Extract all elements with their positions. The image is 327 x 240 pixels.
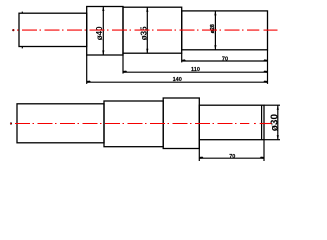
svg-text:ø30: ø30 [270, 114, 281, 132]
chamfer line at shaft end [261, 106, 263, 140]
centerline (top shaft) [12, 29, 277, 31]
extension line x86.7 [86, 55, 88, 84]
svg-text:ø40: ø40 [95, 26, 104, 40]
svg-text:70: 70 [222, 57, 228, 63]
section B4 outline [199, 105, 264, 140]
svg-text:70: 70 [229, 154, 235, 160]
dim line d40 [102, 7, 104, 56]
dim line d35 [146, 7, 148, 53]
section B2 outline [104, 101, 163, 147]
extension line bottom (right d-dim) [264, 139, 280, 141]
section S1 outline [19, 13, 87, 46]
section B3 outline [163, 98, 199, 149]
section S4 outline [182, 11, 268, 50]
section S3 outline [123, 7, 182, 53]
svg-text:ø35: ø35 [140, 26, 149, 40]
dim line d30 (bottom shaft) [277, 105, 279, 140]
dim line 70 (top) [182, 59, 268, 61]
extension line x123 [122, 53, 124, 73]
dim line 70 (bottom) [199, 157, 264, 159]
dim line 110 [123, 71, 268, 73]
burr tick bottom-left of S1 [21, 46, 23, 48]
burr tick top-left of S1 [21, 12, 23, 14]
section S2 outline [87, 7, 123, 56]
section B1 outline [17, 104, 104, 143]
svg-text:ø28: ø28 [210, 24, 216, 33]
extension line x181.7 [181, 53, 183, 62]
dim line d28 [214, 11, 216, 50]
centerline (bottom shaft) [10, 122, 272, 124]
extension line x267.5 [267, 50, 269, 84]
dim line 140 [87, 81, 268, 83]
svg-text:140: 140 [173, 77, 182, 83]
extension line x264 (70 dim) [263, 140, 265, 161]
extension line x199.3 (70 dim) [198, 140, 200, 161]
svg-text:110: 110 [191, 67, 200, 73]
extension line top (right d-dim) [264, 104, 280, 106]
